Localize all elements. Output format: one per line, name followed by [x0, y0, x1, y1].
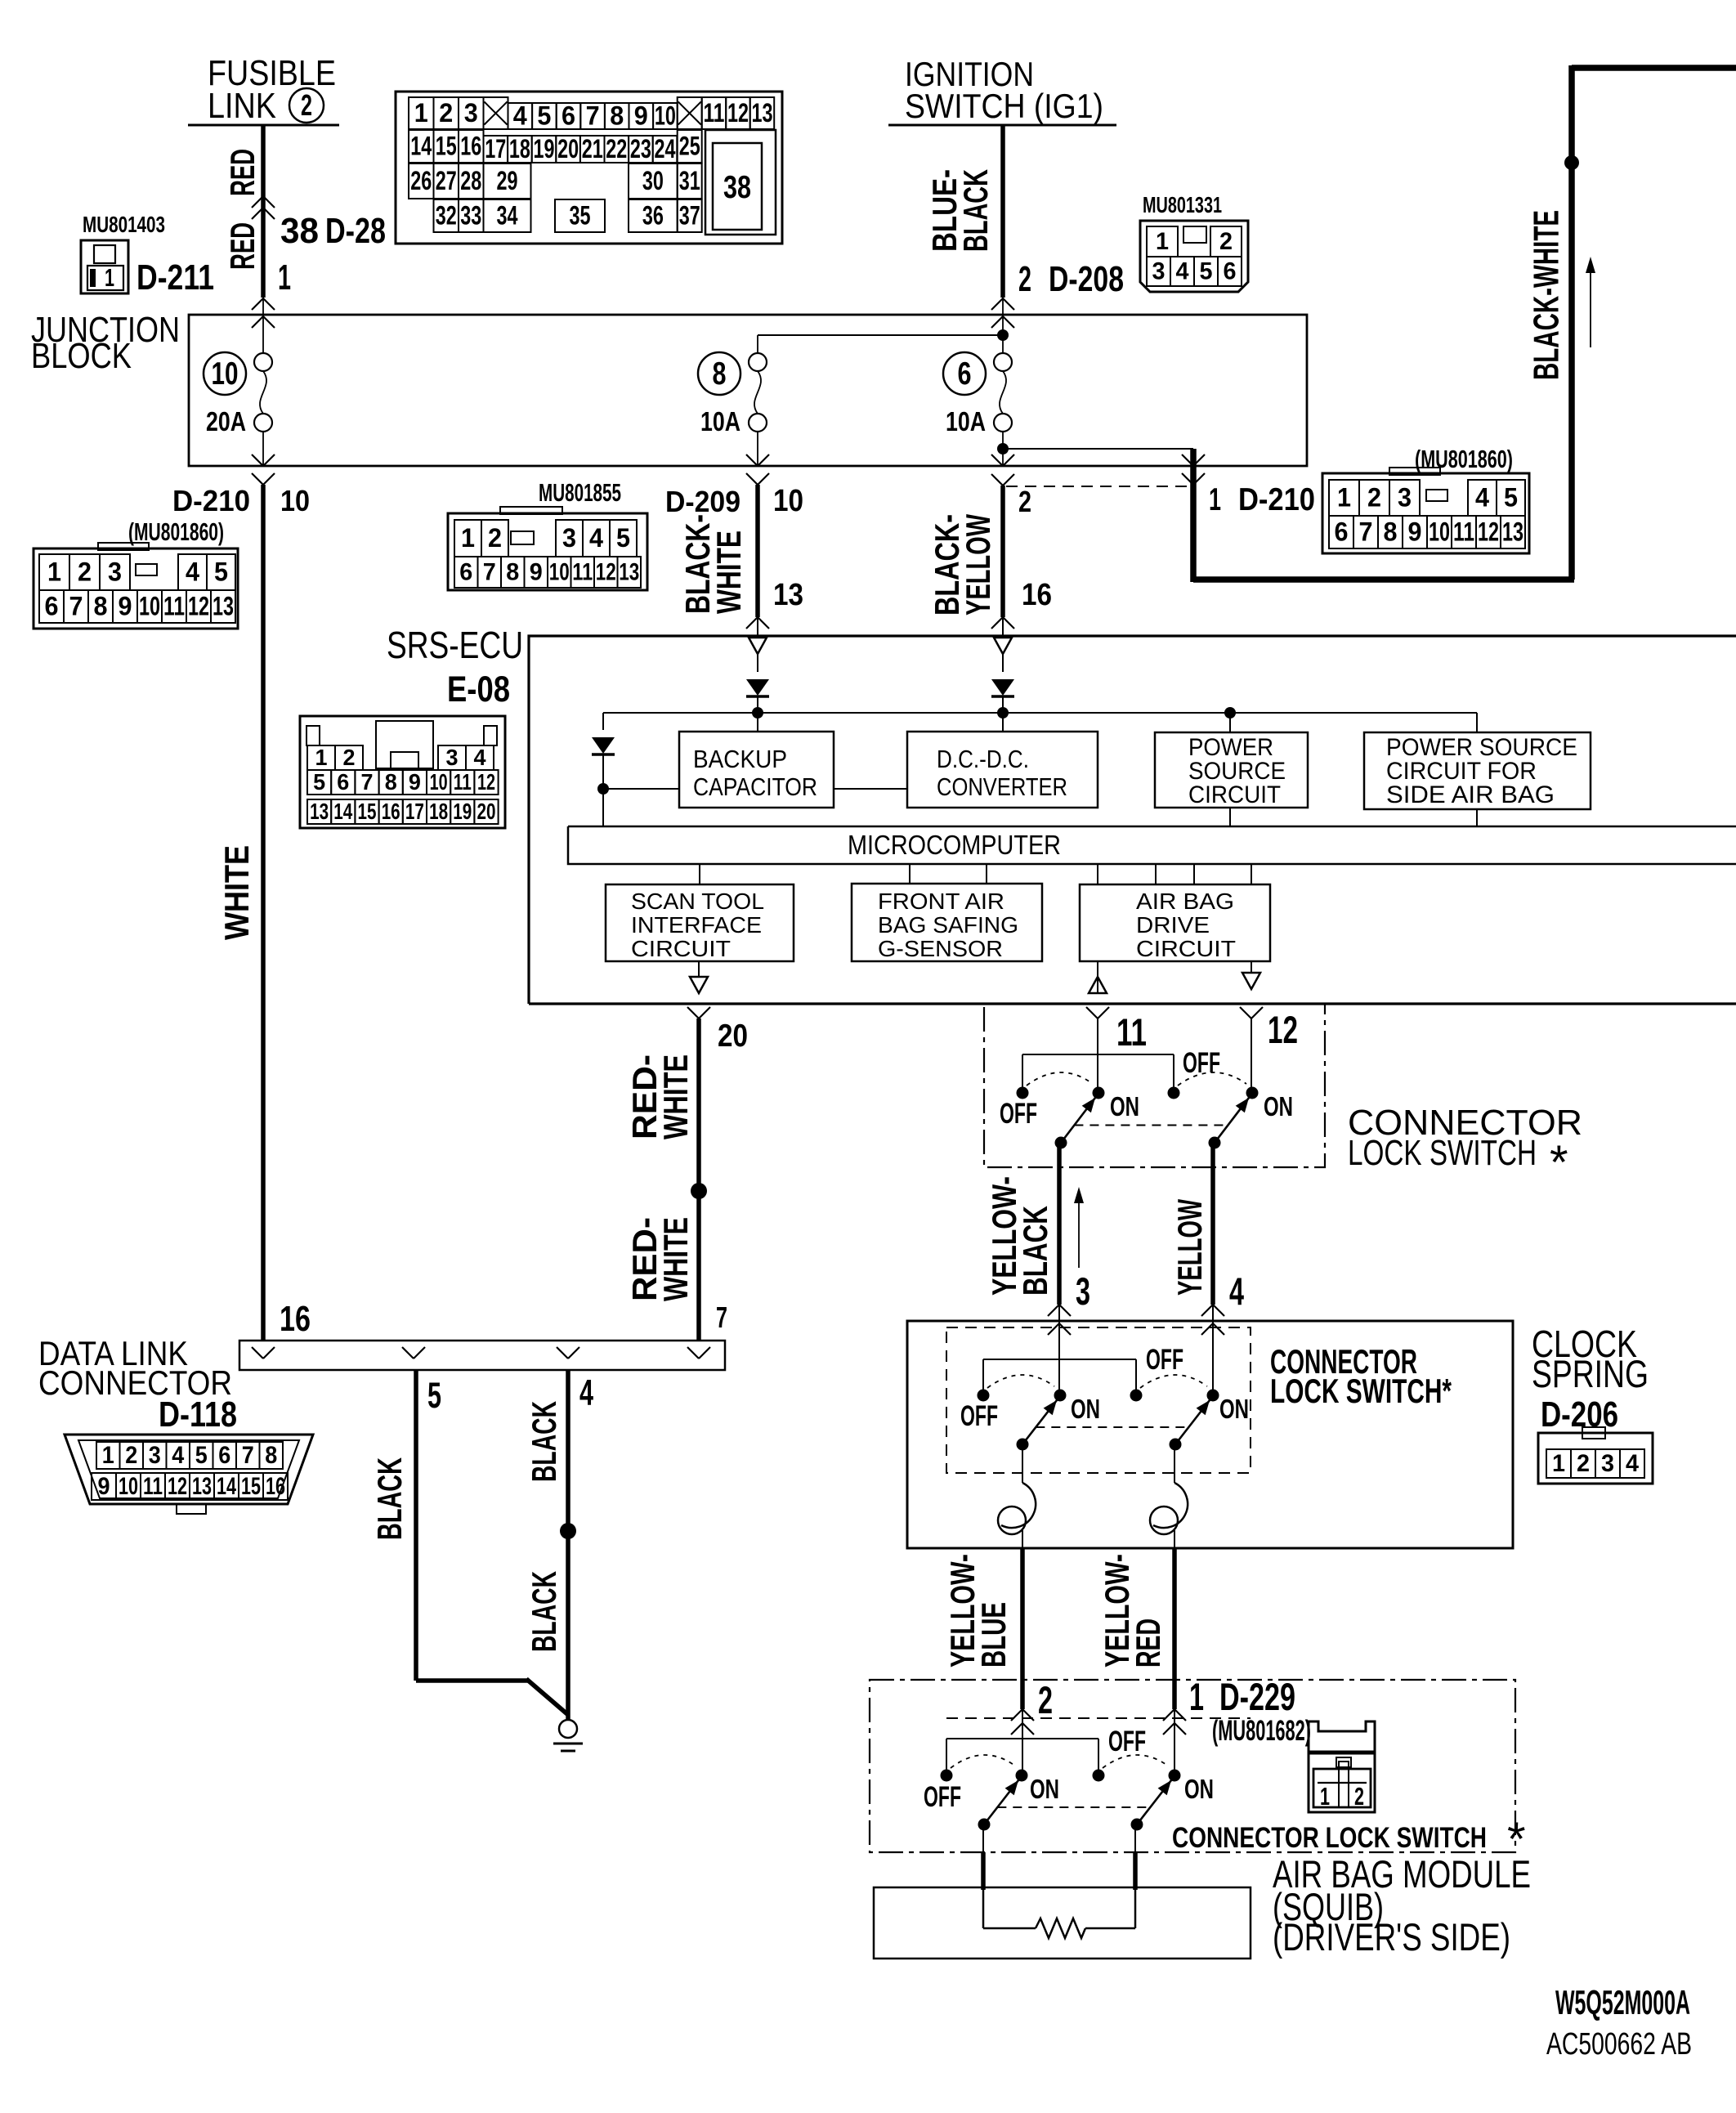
svg-text:ON: ON	[1219, 1394, 1249, 1425]
svg-text:DRIVE: DRIVE	[1136, 912, 1210, 938]
svg-text:9: 9	[634, 101, 648, 130]
svg-text:8: 8	[610, 101, 624, 130]
svg-text:OFF: OFF	[1146, 1344, 1183, 1376]
svg-text:19: 19	[453, 799, 472, 824]
svg-text:10: 10	[119, 1473, 138, 1500]
svg-text:BAG SAFING: BAG SAFING	[878, 912, 1018, 938]
svg-text:BLACK: BLACK	[525, 1401, 563, 1482]
svg-text:2: 2	[78, 557, 92, 586]
svg-text:(DRIVER'S SIDE): (DRIVER'S SIDE)	[1273, 1916, 1510, 1959]
svg-text:(MU801682): (MU801682)	[1212, 1715, 1311, 1747]
svg-text:12: 12	[168, 1473, 187, 1500]
svg-text:E-08: E-08	[447, 669, 510, 710]
svg-text:D-209: D-209	[665, 485, 740, 518]
svg-text:7: 7	[242, 1442, 254, 1469]
svg-text:AIR BAG: AIR BAG	[1136, 889, 1234, 914]
svg-text:4: 4	[579, 1373, 593, 1413]
svg-text:11: 11	[454, 769, 472, 795]
svg-text:24: 24	[655, 134, 676, 163]
svg-text:11: 11	[163, 591, 185, 620]
svg-text:3: 3	[1152, 258, 1166, 285]
svg-text:2: 2	[1219, 228, 1233, 255]
svg-text:13: 13	[751, 98, 772, 128]
svg-text:10: 10	[212, 356, 239, 392]
svg-text:YELLOW: YELLOW	[1170, 1199, 1209, 1296]
svg-text:5: 5	[1200, 258, 1213, 285]
svg-text:D-211: D-211	[136, 258, 214, 298]
svg-text:16: 16	[280, 1300, 311, 1339]
svg-text:6: 6	[45, 591, 59, 620]
svg-text:CONNECTOR LOCK SWITCH: CONNECTOR LOCK SWITCH	[1172, 1822, 1487, 1854]
svg-text:LOCK SWITCH*: LOCK SWITCH*	[1270, 1372, 1452, 1410]
svg-text:9: 9	[409, 769, 421, 795]
svg-text:LOCK SWITCH: LOCK SWITCH	[1348, 1134, 1537, 1173]
svg-text:5: 5	[616, 523, 630, 553]
svg-text:12: 12	[188, 591, 209, 620]
svg-text:6: 6	[459, 559, 472, 586]
svg-text:12: 12	[1268, 1009, 1298, 1052]
svg-text:SCAN TOOL: SCAN TOOL	[631, 889, 764, 914]
svg-text:5: 5	[313, 769, 325, 795]
svg-text:2: 2	[1577, 1450, 1590, 1477]
svg-text:3: 3	[446, 745, 459, 770]
svg-text:14: 14	[333, 799, 352, 824]
svg-text:32: 32	[436, 200, 457, 230]
svg-text:2: 2	[1038, 1679, 1053, 1722]
svg-text:4: 4	[1176, 258, 1189, 285]
svg-text:36: 36	[642, 200, 664, 230]
svg-text:6: 6	[958, 356, 972, 392]
svg-text:YELLOW: YELLOW	[959, 514, 997, 616]
svg-text:(MU801860): (MU801860)	[128, 517, 224, 546]
svg-text:OFF: OFF	[924, 1781, 961, 1813]
svg-text:1: 1	[278, 258, 291, 298]
svg-text:10: 10	[430, 769, 448, 795]
svg-text:7: 7	[483, 559, 496, 586]
svg-text:10: 10	[773, 483, 803, 517]
svg-text:13: 13	[619, 559, 639, 586]
svg-text:2: 2	[1367, 482, 1381, 512]
svg-text:16: 16	[1022, 577, 1052, 611]
svg-text:D-210: D-210	[1238, 482, 1315, 517]
svg-text:12: 12	[727, 98, 749, 128]
svg-text:8: 8	[94, 591, 108, 620]
svg-text:ON: ON	[1110, 1092, 1139, 1122]
svg-text:10: 10	[655, 101, 676, 130]
svg-text:20A: 20A	[206, 407, 246, 437]
svg-text:SIDE AIR BAG: SIDE AIR BAG	[1386, 781, 1555, 808]
svg-text:28: 28	[460, 166, 481, 195]
svg-text:8: 8	[506, 559, 519, 586]
svg-text:RED: RED	[223, 149, 262, 196]
svg-text:2: 2	[488, 523, 502, 553]
svg-text:35: 35	[570, 200, 591, 230]
svg-text:MICROCOMPUTER: MICROCOMPUTER	[848, 830, 1061, 861]
svg-text:30: 30	[642, 166, 664, 195]
svg-text:RED: RED	[1129, 1618, 1167, 1668]
svg-text:INTERFACE: INTERFACE	[631, 912, 762, 938]
svg-text:BACKUP: BACKUP	[693, 745, 787, 773]
svg-text:16: 16	[382, 799, 400, 824]
svg-text:3: 3	[464, 98, 478, 128]
svg-text:10A: 10A	[700, 407, 740, 437]
svg-text:23: 23	[630, 134, 651, 163]
svg-text:4: 4	[1626, 1450, 1639, 1477]
svg-text:11: 11	[1116, 1011, 1147, 1054]
svg-text:26: 26	[410, 166, 432, 195]
svg-text:CIRCUIT: CIRCUIT	[631, 936, 731, 961]
svg-text:3: 3	[1076, 1270, 1090, 1314]
svg-text:BLOCK: BLOCK	[31, 337, 132, 376]
svg-text:1: 1	[105, 263, 114, 292]
svg-text:12: 12	[596, 559, 616, 586]
svg-text:ON: ON	[1030, 1775, 1059, 1805]
svg-text:7: 7	[69, 591, 83, 620]
svg-text:37: 37	[679, 200, 700, 230]
svg-text:9: 9	[98, 1473, 110, 1500]
svg-text:8: 8	[265, 1442, 277, 1469]
svg-text:21: 21	[582, 134, 603, 163]
svg-text:20: 20	[557, 134, 579, 163]
svg-text:3: 3	[1601, 1450, 1614, 1477]
svg-text:4: 4	[1475, 482, 1489, 512]
svg-text:BLACK-WHITE: BLACK-WHITE	[1528, 210, 1567, 380]
svg-text:3: 3	[149, 1442, 161, 1469]
svg-text:1: 1	[102, 1442, 114, 1469]
svg-text:38: 38	[280, 212, 319, 251]
svg-text:13: 13	[773, 577, 803, 611]
svg-text:9: 9	[119, 591, 132, 620]
svg-text:8: 8	[713, 356, 727, 392]
svg-text:4: 4	[513, 101, 527, 130]
svg-text:15: 15	[436, 131, 457, 160]
svg-text:AC500662 AB: AC500662 AB	[1546, 2026, 1692, 2061]
svg-text:25: 25	[679, 131, 700, 160]
svg-text:2: 2	[1354, 1782, 1364, 1811]
svg-text:1: 1	[1320, 1782, 1330, 1811]
svg-text:*: *	[1550, 1136, 1568, 1189]
svg-text:D-210: D-210	[172, 484, 250, 517]
svg-text:1: 1	[315, 745, 328, 770]
svg-text:15: 15	[241, 1473, 261, 1500]
svg-text:17: 17	[485, 134, 506, 163]
svg-text:9: 9	[1408, 517, 1422, 546]
svg-text:16: 16	[266, 1473, 285, 1500]
svg-text:9: 9	[530, 559, 543, 586]
svg-text:4: 4	[172, 1442, 184, 1469]
svg-text:7: 7	[361, 769, 374, 795]
svg-text:10: 10	[139, 591, 160, 620]
svg-text:W5Q52M000A: W5Q52M000A	[1555, 1983, 1690, 2021]
svg-text:11: 11	[572, 559, 593, 586]
svg-text:BLUE: BLUE	[974, 1602, 1013, 1668]
svg-text:MU801331: MU801331	[1143, 192, 1222, 217]
svg-text:6: 6	[1224, 258, 1237, 285]
svg-text:1: 1	[1552, 1450, 1565, 1477]
svg-text:5: 5	[537, 101, 551, 130]
svg-text:5: 5	[1504, 482, 1518, 512]
svg-text:BLACK: BLACK	[956, 169, 995, 252]
svg-text:7: 7	[1359, 517, 1373, 546]
svg-text:15: 15	[358, 799, 377, 824]
svg-text:SWITCH (IG1): SWITCH (IG1)	[905, 87, 1103, 125]
svg-text:D-28: D-28	[325, 212, 386, 251]
svg-text:5: 5	[427, 1376, 441, 1416]
svg-text:BLACK: BLACK	[370, 1457, 409, 1540]
svg-text:6: 6	[337, 769, 349, 795]
svg-text:8: 8	[1384, 517, 1398, 546]
svg-text:13: 13	[192, 1473, 212, 1500]
svg-text:17: 17	[405, 799, 424, 824]
svg-text:MU801403: MU801403	[83, 212, 165, 237]
svg-text:11: 11	[1453, 517, 1474, 546]
svg-text:SRS-ECU: SRS-ECU	[387, 624, 523, 666]
svg-text:12: 12	[477, 769, 495, 795]
svg-text:CAPACITOR: CAPACITOR	[693, 772, 817, 801]
svg-text:6: 6	[562, 101, 575, 130]
svg-text:LINK: LINK	[208, 87, 276, 126]
svg-text:33: 33	[460, 200, 481, 230]
svg-text:27: 27	[436, 166, 457, 195]
svg-text:1: 1	[414, 98, 428, 128]
svg-text:4: 4	[589, 523, 603, 553]
svg-text:D.C.-D.C.: D.C.-D.C.	[937, 745, 1029, 773]
svg-text:BLACK: BLACK	[525, 1571, 563, 1652]
svg-text:2: 2	[1018, 485, 1031, 518]
svg-text:1: 1	[1209, 482, 1221, 517]
svg-text:FRONT AIR: FRONT AIR	[878, 889, 1004, 914]
svg-text:D-229: D-229	[1219, 1676, 1295, 1719]
svg-text:11: 11	[703, 98, 724, 128]
svg-text:4: 4	[186, 557, 199, 586]
svg-text:CONVERTER: CONVERTER	[937, 772, 1067, 801]
svg-text:18: 18	[429, 799, 448, 824]
svg-text:3: 3	[562, 523, 576, 553]
svg-text:7: 7	[716, 1300, 727, 1334]
svg-text:2: 2	[1018, 260, 1031, 299]
svg-text:16: 16	[460, 131, 481, 160]
svg-text:2: 2	[301, 88, 312, 122]
svg-text:D-208: D-208	[1049, 260, 1124, 299]
svg-text:(MU801860): (MU801860)	[1415, 445, 1513, 473]
svg-text:10: 10	[1429, 517, 1450, 546]
svg-text:OFF: OFF	[960, 1400, 998, 1432]
svg-text:1: 1	[461, 523, 475, 553]
svg-text:18: 18	[509, 134, 530, 163]
svg-text:D-206: D-206	[1541, 1395, 1618, 1435]
svg-text:38: 38	[723, 170, 751, 205]
svg-text:OFF: OFF	[1183, 1047, 1220, 1079]
svg-text:14: 14	[410, 131, 432, 160]
svg-text:WHITE: WHITE	[709, 530, 748, 614]
svg-text:2: 2	[125, 1442, 137, 1469]
svg-text:2: 2	[343, 745, 356, 770]
svg-text:D-118: D-118	[159, 1395, 237, 1435]
svg-text:8: 8	[385, 769, 397, 795]
svg-text:1: 1	[1189, 1676, 1204, 1719]
svg-text:19: 19	[534, 134, 555, 163]
svg-text:CIRCUIT: CIRCUIT	[1188, 781, 1281, 808]
svg-text:5: 5	[214, 557, 228, 586]
svg-text:CIRCUIT: CIRCUIT	[1136, 936, 1236, 961]
svg-text:1: 1	[1156, 228, 1169, 255]
svg-text:1: 1	[1337, 482, 1351, 512]
svg-text:WHITE: WHITE	[656, 1054, 695, 1139]
svg-text:10A: 10A	[946, 407, 986, 437]
svg-text:6: 6	[218, 1442, 230, 1469]
svg-text:3: 3	[1398, 482, 1412, 512]
svg-text:7: 7	[586, 101, 600, 130]
svg-text:13: 13	[213, 591, 234, 620]
svg-text:MU801855: MU801855	[539, 478, 621, 507]
svg-text:29: 29	[497, 166, 518, 195]
svg-text:OFF: OFF	[1000, 1098, 1037, 1130]
svg-text:10: 10	[280, 484, 310, 517]
svg-text:22: 22	[606, 134, 627, 163]
svg-text:RED: RED	[223, 222, 262, 270]
svg-text:4: 4	[1229, 1270, 1244, 1314]
svg-text:4: 4	[474, 745, 486, 770]
svg-text:WHITE: WHITE	[217, 845, 256, 940]
svg-text:BLACK: BLACK	[1016, 1206, 1054, 1296]
svg-text:G-SENSOR: G-SENSOR	[878, 936, 1003, 961]
svg-text:20: 20	[477, 799, 496, 824]
svg-text:OFF: OFF	[1108, 1726, 1146, 1757]
svg-text:WHITE: WHITE	[656, 1217, 695, 1301]
svg-text:6: 6	[1335, 517, 1349, 546]
svg-text:2: 2	[439, 98, 453, 128]
svg-text:14: 14	[217, 1473, 236, 1500]
svg-text:20: 20	[718, 1018, 748, 1054]
svg-text:ON: ON	[1184, 1775, 1214, 1805]
svg-text:ON: ON	[1071, 1394, 1100, 1425]
svg-text:1: 1	[47, 557, 61, 586]
svg-text:13: 13	[310, 799, 329, 824]
svg-text:ON: ON	[1264, 1092, 1293, 1122]
svg-text:34: 34	[497, 200, 518, 230]
svg-text:3: 3	[108, 557, 122, 586]
svg-text:5: 5	[195, 1442, 208, 1469]
svg-text:SPRING: SPRING	[1532, 1353, 1649, 1396]
svg-text:31: 31	[679, 166, 700, 195]
svg-text:13: 13	[1502, 517, 1523, 546]
svg-text:11: 11	[143, 1473, 163, 1500]
svg-text:10: 10	[549, 559, 570, 586]
svg-text:12: 12	[1478, 517, 1499, 546]
